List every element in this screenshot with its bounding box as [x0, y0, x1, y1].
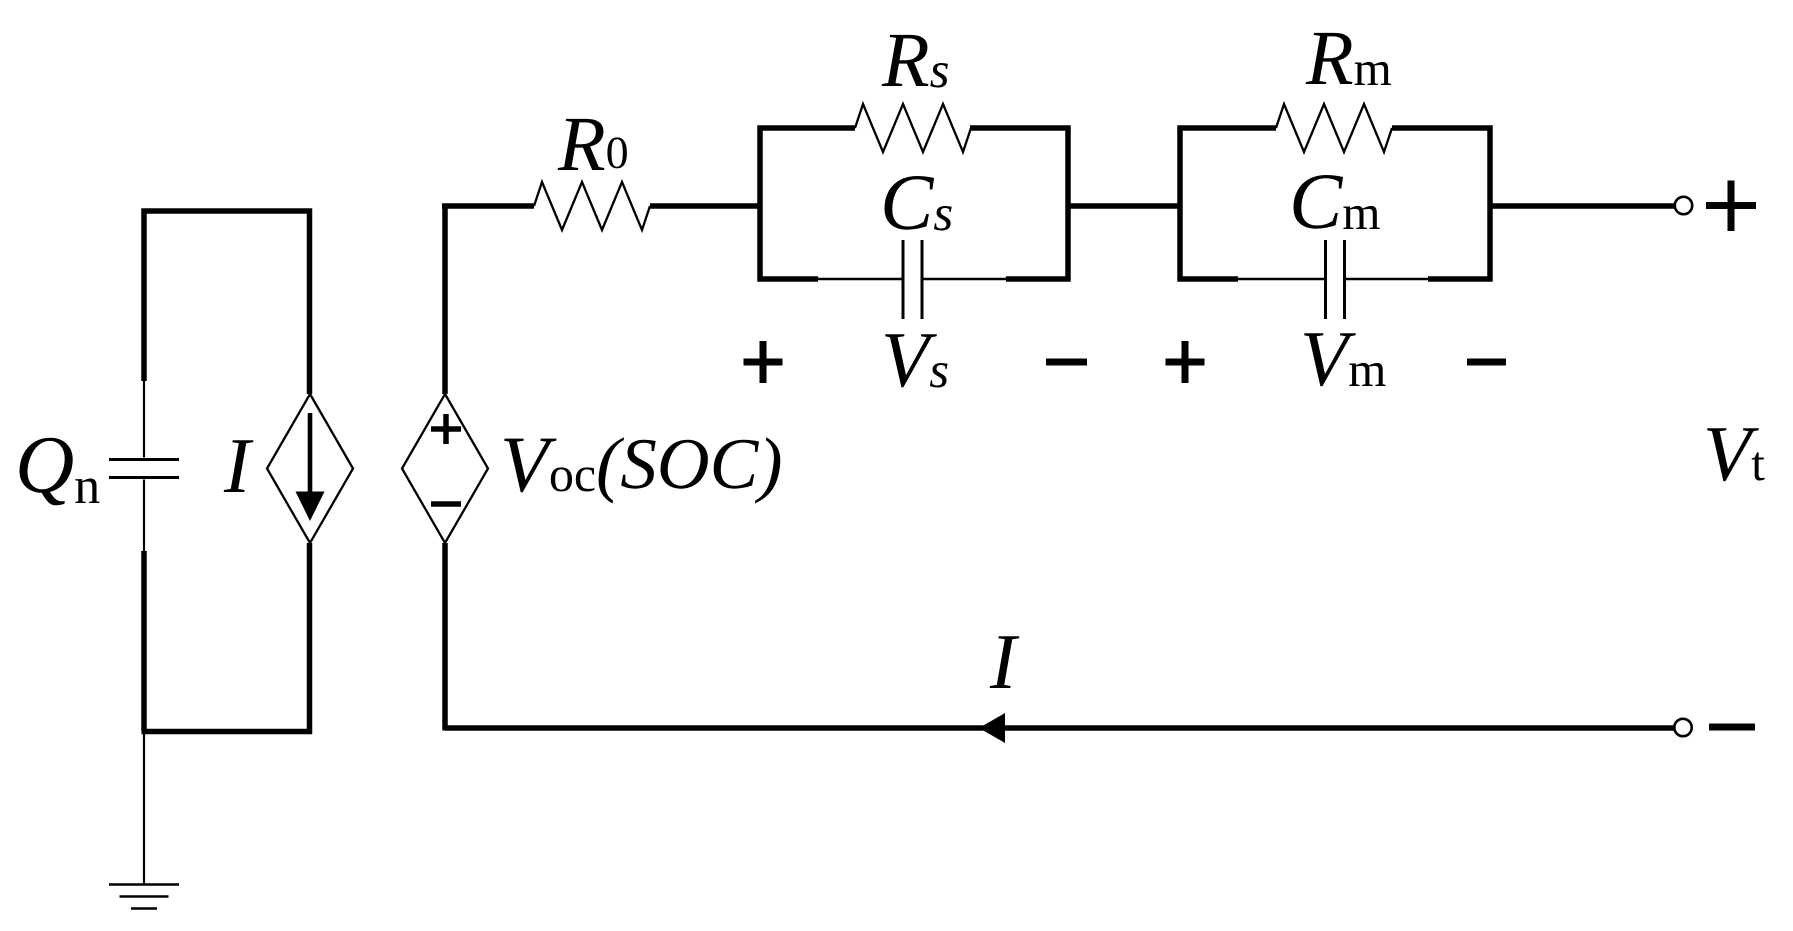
wire Voc to R0 [442, 203, 534, 209]
label I (current source) [224, 440, 254, 492]
label Vm [1304, 333, 1386, 386]
label Vt [1707, 428, 1765, 481]
capacitor Cm [1238, 240, 1428, 319]
node - of Vs [1046, 359, 1087, 366]
RC network 1 frame [758, 126, 1071, 282]
wire bottom return [445, 725, 1675, 731]
label Qn [20, 438, 100, 506]
wire Voc top [442, 204, 448, 395]
wire current source bottom [307, 543, 313, 734]
current arrow I [979, 713, 1005, 743]
ground [109, 885, 179, 909]
wire Voc bottom [442, 543, 448, 731]
label Voc(SOC) [504, 437, 780, 503]
terminal - circle [1674, 719, 1691, 736]
wire box2 to + terminal [1490, 203, 1675, 209]
label Rs [882, 35, 948, 88]
label I (bottom) [990, 636, 1020, 688]
RC network 2 frame [1178, 126, 1493, 282]
wire left loop bottom [142, 729, 313, 735]
label Vs [885, 334, 948, 387]
wire left branch lower [141, 551, 147, 731]
node + of Vm [1166, 341, 1205, 383]
wire to ground [143, 731, 145, 884]
terminal + sign [1706, 181, 1756, 232]
label Rm [1306, 33, 1391, 85]
label Cm [1294, 175, 1380, 229]
node + label Vs polarity [744, 341, 783, 383]
label Cs [885, 176, 952, 231]
capacitor Cs [818, 240, 1006, 319]
label R0 [558, 119, 627, 170]
resistor Rm [1276, 104, 1392, 152]
terminal + circle [1675, 197, 1692, 214]
terminal - sign [1709, 724, 1755, 731]
capacitor Qn [109, 381, 179, 551]
wire box1 to box2 [1068, 203, 1180, 209]
resistor Rs [855, 104, 971, 152]
wire R0 to box1 [650, 203, 758, 209]
current source I [267, 394, 353, 543]
node - of Vm [1467, 359, 1506, 366]
wire left loop top [142, 209, 313, 395]
dependent voltage source Voc [402, 394, 488, 543]
resistor R0 [534, 182, 650, 230]
